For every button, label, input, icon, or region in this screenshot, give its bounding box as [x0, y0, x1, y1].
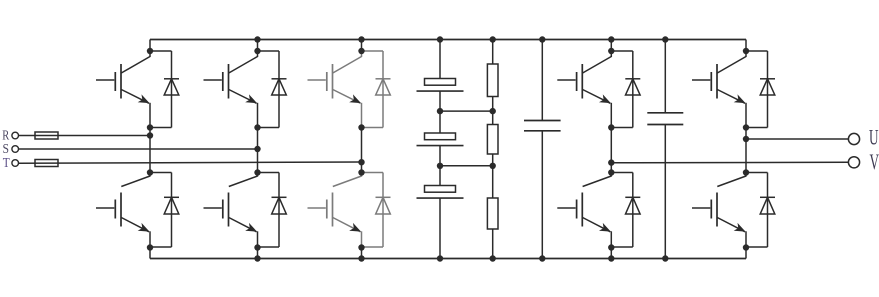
wire [492, 166, 494, 199]
svg-text:U: U [869, 125, 879, 150]
wire : negative DC bus (bottom) [150, 258, 746, 260]
node : bottom bus junction [437, 255, 443, 261]
transistor Q8 with freewheel diode (top of leg R2) [692, 50, 775, 128]
node : top bus junction [662, 36, 668, 42]
transistor Q10 with freewheel diode (bottom of leg R2) [692, 172, 775, 249]
transistor Q1 with freewheel diode (top of leg L1) [96, 50, 179, 128]
node : top bus junction [490, 36, 496, 42]
svg-text:T: T [3, 156, 10, 171]
terminal R [12, 132, 19, 139]
resistor R1 (balancing) [487, 64, 498, 97]
node : top bus junction [608, 36, 614, 42]
wire : leg L2 vertical [257, 40, 259, 53]
node : bottom bus junction [490, 255, 496, 261]
transistor Q7 with freewheel diode (top of leg R1) [557, 50, 640, 128]
wire [439, 91, 441, 111]
node : bottom bus junction [662, 255, 668, 261]
wire : cap column top [439, 40, 441, 80]
wire [439, 111, 441, 133]
wire : balance tap 2 [440, 165, 493, 167]
wire [492, 154, 494, 166]
fuse F2 on T line [35, 160, 58, 167]
node : U tap on leg R2 [743, 136, 749, 142]
capacitor C1 (electrolytic) [417, 79, 464, 92]
wire : leg L3 vertical [361, 40, 363, 53]
node : C1/C2 junction [437, 108, 443, 114]
wire : leg L1 vertical [149, 40, 151, 53]
wire : positive DC bus (top) [150, 39, 746, 41]
wire : C5 top lead [664, 40, 666, 113]
transistor Q2 with freewheel diode (top of leg L2) [204, 50, 287, 128]
wire : resistor column top [492, 40, 494, 65]
capacitor C4 [524, 120, 561, 122]
node : leg R1 junctions [608, 48, 614, 54]
node : leg L2 junctions [254, 48, 260, 54]
fuse F1 on R line [35, 132, 58, 139]
terminal T [12, 160, 19, 167]
wire : U line [746, 138, 848, 140]
node : T to leg L3 [358, 159, 364, 165]
node : V tap on leg R1 [608, 159, 614, 165]
wire : C4 top lead [541, 40, 543, 121]
node : R1/R2 junction [490, 108, 496, 114]
node : bottom bus junction [254, 255, 260, 261]
capacitor C2 (electrolytic) [417, 133, 464, 146]
node : top bus junction [437, 36, 443, 42]
node : top bus junction [254, 36, 260, 42]
wire [492, 229, 494, 259]
node : top bus junction [539, 36, 545, 42]
transistor Q5 with freewheel diode (bottom of leg L2) [204, 172, 287, 249]
wire [439, 198, 441, 258]
wire : R line [19, 135, 150, 137]
node : leg L1 junctions [147, 48, 153, 54]
terminal S [12, 146, 19, 153]
wire : T line [19, 162, 362, 163]
wire [492, 111, 494, 125]
wire : balance tap 1 [440, 110, 493, 112]
transistor Q9 with freewheel diode (bottom of leg R1) [557, 172, 640, 249]
wire [439, 166, 441, 186]
node : C2/C3 junction [437, 163, 443, 169]
node : top bus junction [358, 36, 364, 42]
terminal U [848, 133, 859, 144]
wire : S line [19, 148, 258, 150]
node : leg R2 junctions [743, 48, 749, 54]
wire : V line [611, 161, 848, 164]
terminal V [848, 157, 859, 168]
node : leg L3 junctions [358, 48, 364, 54]
capacitor C3 (electrolytic) [417, 186, 464, 199]
node : R to leg L1 [147, 132, 153, 138]
transistor Q3 with freewheel diode (top of leg L3) [308, 50, 391, 128]
node : bottom bus junction [608, 255, 614, 261]
wire : C5 bottom lead [664, 125, 666, 259]
wire [492, 97, 494, 112]
svg-text:R: R [2, 128, 9, 143]
wire [439, 146, 441, 166]
transistor Q4 with freewheel diode (bottom of leg L1) [96, 172, 179, 249]
node : bottom bus junction [539, 255, 545, 261]
svg-text:V: V [870, 149, 879, 174]
node : R2/R3 junction [490, 163, 496, 169]
node : bottom bus junction [358, 255, 364, 261]
wire : leg R1 vertical [610, 40, 612, 53]
transistor Q6 with freewheel diode (bottom of leg L3) [308, 172, 391, 249]
resistor R2 (balancing) [487, 125, 498, 155]
wire : C4 bottom lead [541, 131, 543, 259]
wire : leg R2 vertical [745, 40, 747, 53]
capacitor C5 [647, 112, 683, 114]
node : S to leg L2 [254, 146, 260, 152]
resistor R3 (balancing) [487, 198, 498, 229]
